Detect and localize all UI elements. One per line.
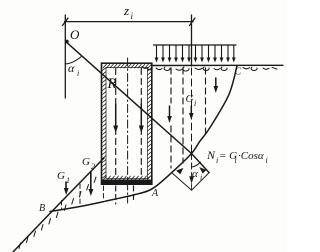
angle arc alpha_i at O: [65, 57, 81, 65]
ground surface right: [152, 64, 283, 66]
distributed load line: [154, 44, 237, 46]
left slope line: [13, 158, 104, 252]
slice arrow left: [167, 106, 172, 123]
distributed load arrows: [155, 45, 236, 63]
wall arrow right: [139, 104, 144, 133]
T_i arrowhead on arc: [176, 168, 183, 175]
dashed slice lines in right soil: [170, 68, 172, 103]
svg-text:·Cosα: ·Cosα: [238, 150, 264, 162]
svg-text:2: 2: [91, 162, 95, 171]
soil hatch curls under ground: [142, 67, 277, 72]
svg-text:α: α: [68, 61, 75, 75]
svg-text:z: z: [123, 3, 129, 18]
svg-text:i: i: [131, 11, 134, 21]
wall centerline (dash-dot): [127, 58, 129, 203]
arrow G2: [89, 172, 94, 196]
slope hatching: [19, 177, 96, 249]
svg-text:N: N: [206, 148, 216, 162]
svg-text:G: G: [82, 156, 90, 168]
wall arrow left: [113, 104, 118, 133]
force diagram: vertical G_i component dashed with arrow: [191, 154, 193, 179]
svg-text:G: G: [57, 170, 65, 182]
vertical line at x_i (dimension to C region): [191, 15, 193, 66]
svg-text:i: i: [200, 173, 202, 182]
slice ticks between slope and arc: [61, 201, 63, 210]
vertical line below O: [64, 15, 66, 98]
arrow G_i: [189, 106, 194, 120]
svg-text:i: i: [235, 156, 237, 165]
dashed continuation to X: [191, 68, 193, 152]
svg-text:α: α: [192, 168, 198, 180]
svg-text:i: i: [266, 156, 268, 165]
radius line R (diagonal): [66, 42, 209, 173]
slice arrow right: [214, 78, 219, 93]
wall inner border line: [106, 68, 148, 179]
svg-text:i: i: [216, 156, 218, 165]
svg-text:O: O: [70, 27, 80, 42]
svg-text:G: G: [186, 93, 194, 105]
N_i arrowhead on radius extension: [199, 167, 206, 174]
center point O: [65, 40, 69, 44]
wall dashed line right: [140, 69, 142, 177]
force parallelogram lower sides: [172, 173, 209, 191]
dimension line z_i: [63, 18, 196, 26]
svg-text:R: R: [107, 76, 117, 92]
svg-text:B: B: [39, 203, 45, 214]
arrow G1: [64, 182, 69, 195]
svg-text:A: A: [151, 188, 159, 199]
angle arc alpha_i at X: [192, 162, 201, 167]
svg-text:i: i: [194, 99, 196, 108]
dashed lines below wall: [115, 186, 117, 204]
wall border hatching: [102, 64, 152, 180]
svg-text:i: i: [77, 69, 79, 78]
slip circle arc B to C: [50, 66, 237, 212]
wall base (thick dark bottom edge): [102, 180, 152, 185]
wall (rectangle) outer border: [102, 63, 152, 184]
wall dashed line left: [115, 69, 117, 177]
